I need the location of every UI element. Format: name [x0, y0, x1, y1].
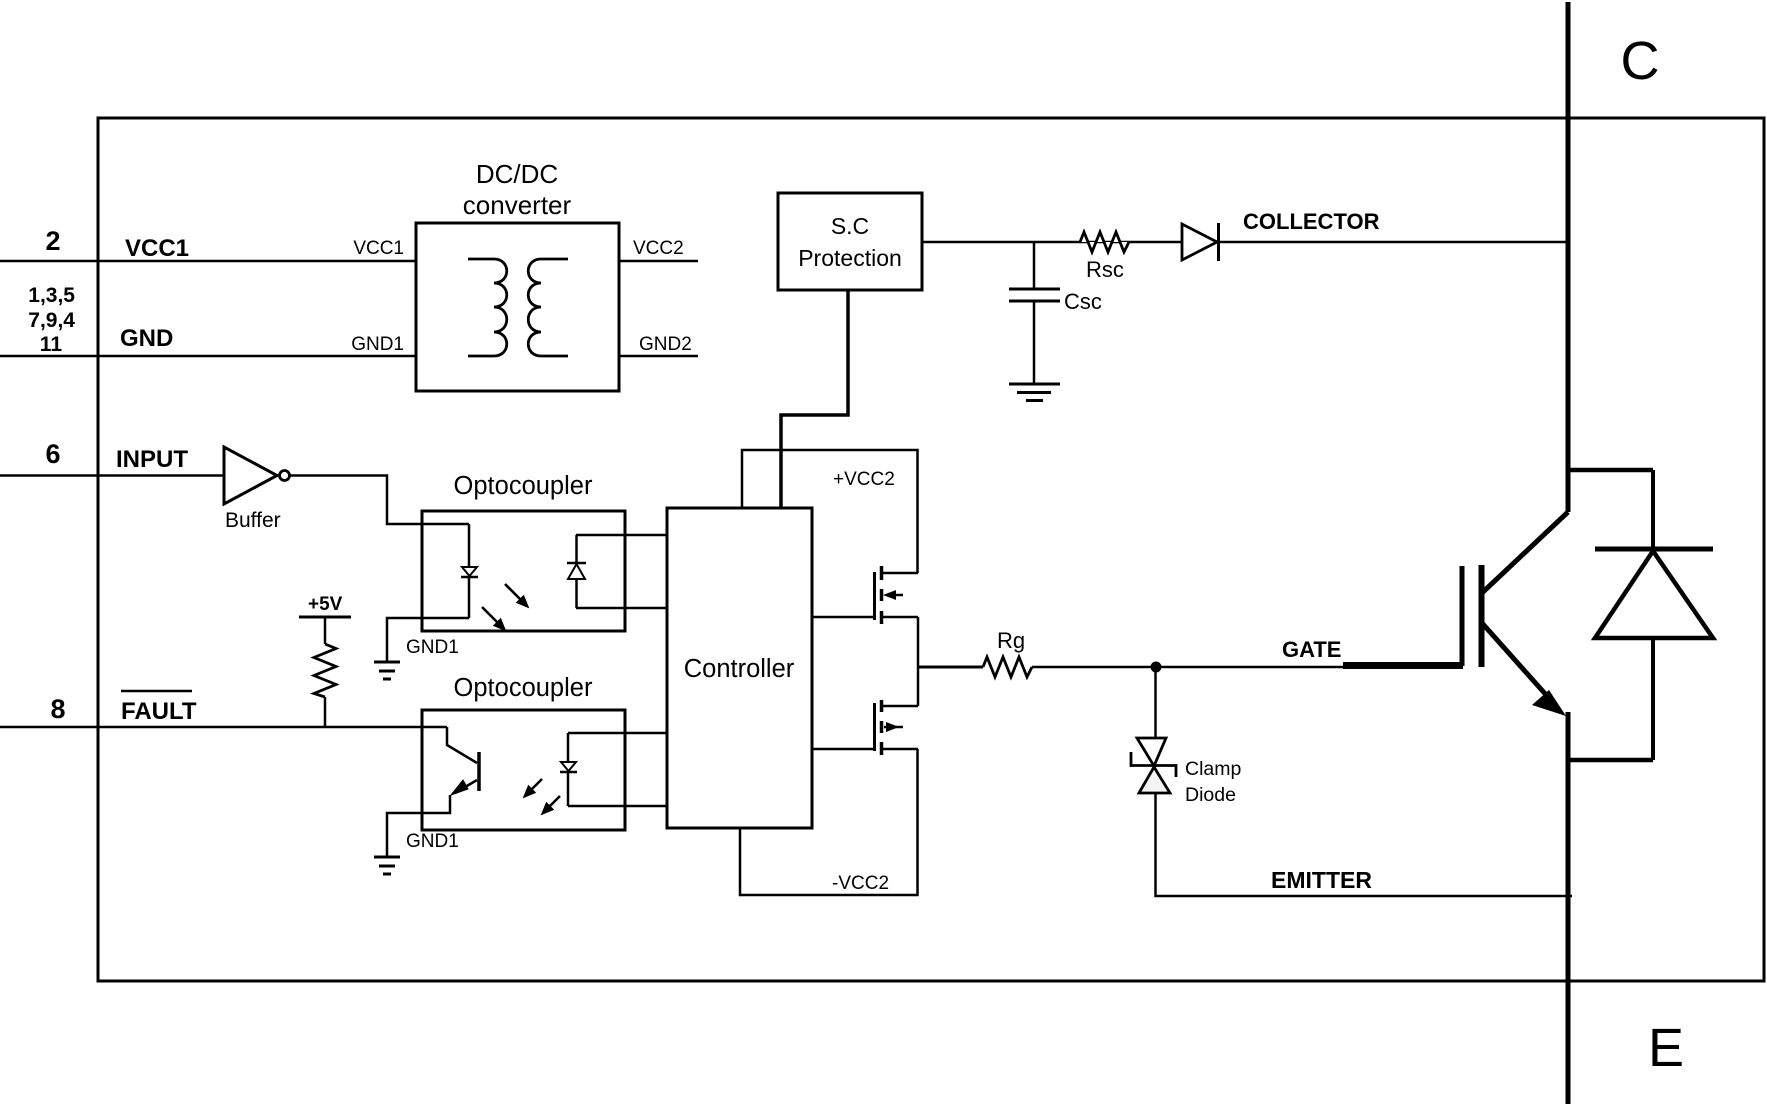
wire buffer output to optocoupler 1	[290, 476, 469, 525]
svg-text:8: 8	[50, 694, 65, 724]
wire gate drive output	[918, 666, 983, 669]
wire GND2 stub	[619, 355, 698, 358]
optocoupler U4 box	[422, 710, 625, 830]
svg-text:+VCC2: +VCC2	[833, 469, 895, 490]
resistor Rg	[983, 657, 1032, 677]
svg-text:1,3,5: 1,3,5	[28, 284, 75, 307]
svg-text:+5V: +5V	[308, 594, 343, 615]
ground GND1 (opto 2)	[374, 856, 400, 859]
controller U5 box	[667, 508, 812, 828]
svg-text:GND: GND	[120, 325, 173, 352]
svg-text:VCC2: VCC2	[633, 238, 684, 259]
S.C Protection block	[778, 193, 922, 290]
wire LED cathode to GND1	[387, 618, 469, 661]
node FAULT pin wire	[0, 726, 447, 729]
IGBT gate bar	[1460, 566, 1465, 666]
svg-text:7,9,4: 7,9,4	[28, 309, 75, 332]
wire clamp diode to emitter rail	[1156, 793, 1573, 896]
transformer T1 secondary coil	[528, 259, 568, 356]
MOSFET Q2 (upper, pull-up)	[873, 572, 876, 620]
svg-text:Optocoupler: Optocoupler	[454, 472, 593, 500]
wires LED (opto2) to controller	[568, 732, 667, 735]
IGBT body bar	[1479, 565, 1485, 667]
svg-text:Diode: Diode	[1185, 784, 1236, 806]
svg-text:COLLECTOR: COLLECTOR	[1243, 209, 1380, 234]
wire Rg to gate node	[1032, 666, 1343, 669]
svg-text:Rsc: Rsc	[1086, 257, 1124, 282]
svg-text:Rg: Rg	[997, 628, 1025, 653]
svg-text:Csc: Csc	[1064, 289, 1102, 314]
svg-text:GATE: GATE	[1282, 637, 1341, 662]
wire S.C output to collector diode	[922, 241, 1182, 244]
MOSFET Q3 (lower, pull-down)	[917, 667, 920, 706]
wire S.C Protection to Controller	[781, 290, 848, 508]
svg-text:Optocoupler: Optocoupler	[454, 674, 593, 702]
svg-text:GND1: GND1	[406, 831, 459, 852]
ground (Csc)	[1009, 383, 1060, 386]
LED (opto 1)	[468, 524, 471, 567]
+VCC2 rail	[742, 450, 918, 573]
node VCC1 pin wire	[0, 260, 416, 263]
svg-text:converter: converter	[463, 190, 572, 220]
LED (opto 2)	[567, 733, 570, 762]
freewheeling diode D2 branch	[1566, 468, 1654, 473]
node gate junction	[1151, 662, 1162, 673]
svg-text:FAULT: FAULT	[121, 698, 197, 725]
photodiode (opto 1)	[575, 535, 578, 563]
light arrows (opto 1)	[482, 584, 528, 630]
svg-text:DC/DC: DC/DC	[476, 159, 558, 189]
svg-text:EMITTER: EMITTER	[1271, 867, 1372, 893]
capacitor Csc	[1033, 242, 1036, 289]
svg-text:E: E	[1648, 1018, 1684, 1078]
svg-text:6: 6	[45, 439, 60, 469]
svg-text:Protection: Protection	[798, 245, 902, 271]
svg-text:C: C	[1621, 31, 1660, 91]
resistor Rsc	[1080, 232, 1129, 252]
collector line C	[1566, 2, 1571, 512]
buffer U2 (input buffer)	[224, 447, 277, 504]
svg-text:GND2: GND2	[639, 334, 692, 355]
svg-text:2: 2	[45, 226, 60, 256]
wire GATE thick lead	[1343, 662, 1463, 669]
clamp diode (bidirectional TVS)	[1154, 667, 1157, 738]
-VCC2 rail	[740, 749, 918, 895]
DC/DC converter block	[416, 223, 619, 391]
svg-text:S.C: S.C	[831, 213, 869, 239]
svg-text:INPUT: INPUT	[116, 446, 188, 473]
transformer T1 primary coil	[468, 259, 507, 356]
emitter line E	[1566, 712, 1571, 1104]
phototransistor Q1 (opto 2)	[447, 727, 477, 763]
IGBT emitter diagonal with arrow	[1482, 623, 1548, 697]
optocoupler U3 box	[422, 511, 625, 631]
light arrows (opto 2)	[524, 779, 560, 814]
svg-text:11: 11	[40, 333, 63, 356]
svg-text:Controller: Controller	[684, 655, 795, 683]
wire VCC2 stub	[619, 260, 698, 263]
svg-text:GND1: GND1	[351, 334, 404, 355]
svg-text:-VCC2: -VCC2	[832, 873, 889, 894]
svg-text:VCC1: VCC1	[125, 235, 189, 262]
node GND pin wire	[0, 355, 416, 358]
svg-text:GND1: GND1	[406, 637, 459, 658]
svg-text:Clamp: Clamp	[1185, 758, 1242, 780]
svg-text:Buffer: Buffer	[225, 509, 281, 532]
outer IC boundary box	[98, 118, 1764, 981]
node INPUT pin wire	[0, 474, 224, 477]
ground GND1 (opto 1)	[374, 661, 400, 664]
resistor R1 (+5V pull-up)	[314, 644, 336, 697]
svg-text:VCC1: VCC1	[353, 238, 404, 259]
wires photodiode to controller	[576, 534, 667, 537]
diode D1 (series collector sense diode)	[1182, 224, 1217, 260]
